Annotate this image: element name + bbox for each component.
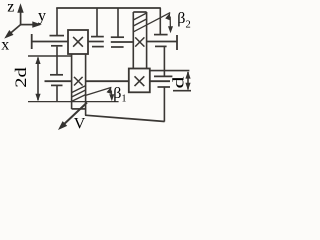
svg-text:d: d [171, 77, 188, 89]
svg-text:y: y [38, 7, 46, 24]
svg-text:x: x [1, 37, 9, 54]
svg-text:V: V [74, 116, 86, 133]
svg-text:2d: 2d [13, 67, 30, 88]
svg-text:z: z [7, 0, 14, 15]
